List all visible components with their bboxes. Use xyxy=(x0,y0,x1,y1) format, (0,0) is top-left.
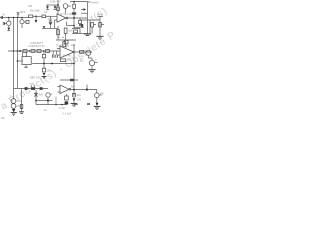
wire row y63.5 xyxy=(32,63,74,65)
wire vertical x58 top xyxy=(57,0,59,14)
node K junction xyxy=(29,50,30,51)
wire x80 drop xyxy=(79,18,81,20)
transistor Q5 xyxy=(89,60,94,65)
svg-text:393: 393 xyxy=(71,84,76,88)
wire X1 lead2 xyxy=(26,52,28,56)
marks row y37 xyxy=(58,36,64,38)
ground G4 xyxy=(42,76,47,77)
vertical x13.5 bottom xyxy=(13,89,15,99)
tick y104.5 right xyxy=(74,104,78,106)
diode D14 xyxy=(46,6,49,9)
wire U3 output xyxy=(71,89,87,91)
dash comp 2 xyxy=(31,87,35,90)
svg-text:0.4Ω: 0.4Ω xyxy=(59,106,65,110)
wire X1 tick xyxy=(18,60,24,62)
diode D11 xyxy=(73,98,76,101)
resistor R22 xyxy=(26,21,29,24)
resistor R2 xyxy=(29,15,33,18)
bus y20 xyxy=(80,19,100,21)
transistor Q4 xyxy=(86,50,91,55)
diode D15 lead xyxy=(54,5,56,6)
vertical x90 xyxy=(89,20,91,34)
diode D2 xyxy=(7,28,10,31)
node W junction xyxy=(86,88,88,90)
capacitor C7 lead xyxy=(56,51,58,55)
tick x100 top xyxy=(97,15,103,17)
diode D2 bar xyxy=(7,30,10,32)
wire y80 xyxy=(60,79,78,81)
node V junction xyxy=(73,89,75,91)
svg-text:BD: BD xyxy=(100,92,104,96)
bottom bus y104.5 xyxy=(36,104,67,106)
resistor R9 xyxy=(57,30,60,35)
node U junction xyxy=(61,104,63,106)
transistor Q3 xyxy=(20,20,24,24)
wire x66.4 xyxy=(65,94,67,96)
diode D15 bar xyxy=(54,8,57,10)
bus y40 xyxy=(56,39,76,41)
node F junction xyxy=(35,15,37,17)
wire R23 leads xyxy=(43,51,45,64)
zener D10 xyxy=(34,93,38,96)
capacitor C7 xyxy=(56,55,58,58)
wire Q1 emitter xyxy=(65,8,67,13)
diode D3 xyxy=(35,20,38,23)
wire Rtop leads xyxy=(73,2,75,14)
transistor Q2 lead xyxy=(8,18,10,22)
ground G3 xyxy=(88,70,95,73)
wire row y51 xyxy=(8,50,60,52)
resistor R20 xyxy=(70,79,74,81)
resistor R21 xyxy=(65,96,69,100)
resistor R18 xyxy=(60,59,65,62)
wire x87 up xyxy=(86,85,88,90)
vertical rail x74 top xyxy=(73,13,75,28)
tick pair above xyxy=(31,85,34,87)
svg-text:REF 2V5: REF 2V5 xyxy=(30,76,41,80)
resistor R23 xyxy=(42,54,45,58)
diode D3 lead xyxy=(35,16,37,20)
node A junction xyxy=(57,4,59,6)
wire bus y16.3 xyxy=(33,15,42,17)
ground G2 xyxy=(96,36,103,39)
node I junction xyxy=(17,50,19,52)
watermark line 1 xyxy=(0,30,118,113)
svg-text:22u: 22u xyxy=(77,93,82,97)
node O junction xyxy=(43,63,45,65)
wire y100.5 xyxy=(36,100,48,102)
ground G5 xyxy=(11,113,17,116)
wire U1 output xyxy=(68,17,87,19)
node C junction xyxy=(13,17,15,19)
wire corner to Q9 xyxy=(87,90,97,93)
diode D15 xyxy=(54,6,57,9)
capacitor C8 xyxy=(72,93,75,97)
svg-text:Vo 8: Vo 8 xyxy=(97,12,103,16)
ground G6 xyxy=(19,112,24,114)
wire R12 down xyxy=(65,44,67,48)
vertical x21.5 bottom xyxy=(21,89,23,112)
wire Q8 down xyxy=(47,97,49,104)
svg-text:V DETECT 2V: V DETECT 2V xyxy=(28,44,45,48)
resistor Rtop xyxy=(73,4,76,8)
svg-text:4u7: 4u7 xyxy=(48,17,53,21)
top rail y1.5 xyxy=(70,1,88,3)
wire feedback horizontal xyxy=(66,24,74,26)
node M junction xyxy=(17,60,19,62)
dark blob U3 bottom xyxy=(65,101,69,104)
wire y33.6 xyxy=(72,33,88,35)
node J junction xyxy=(13,50,15,52)
wire stub x50 xyxy=(50,16,52,20)
resistor R16 xyxy=(46,50,50,53)
vertical x58 mid xyxy=(57,26,59,40)
svg-text:100n 4n7: 100n 4n7 xyxy=(50,0,61,4)
capacitor C4 xyxy=(3,22,4,25)
wire U1 feedback down xyxy=(65,22,67,26)
wire U3 in ticks xyxy=(58,87,61,93)
diode D9 xyxy=(12,109,15,112)
svg-text:BZX: BZX xyxy=(20,10,25,14)
diode D6 xyxy=(79,24,82,27)
wire R7 tick xyxy=(93,24,96,26)
dash right xyxy=(87,103,90,105)
svg-text:5V6: 5V6 xyxy=(38,92,43,96)
main bus wire y17.5 xyxy=(0,17,29,19)
wire Q9 down xyxy=(96,98,98,103)
vertical rail x87.5 xyxy=(87,2,89,34)
supply tick xyxy=(88,1,91,3)
transistor Q7 xyxy=(11,104,16,109)
transistor Q1 xyxy=(63,4,68,9)
wire Q5 tick xyxy=(95,61,98,63)
node T junction xyxy=(55,104,57,106)
svg-text:C ≥ 1uF: C ≥ 1uF xyxy=(62,112,72,116)
wire D4 to bus xyxy=(50,26,52,29)
diode D4 xyxy=(49,23,52,26)
wire R7 lower lead xyxy=(91,27,93,34)
ground G9 xyxy=(24,66,28,68)
resistor R12 xyxy=(64,40,68,43)
capacitor C6 lead xyxy=(52,51,54,55)
resistor R13 xyxy=(23,50,27,53)
wire U2 in ticks xyxy=(57,49,60,56)
resistor R8 xyxy=(99,22,102,27)
resistor R15 xyxy=(37,50,41,53)
wire R8 tick xyxy=(101,24,104,26)
ground G8 xyxy=(94,107,101,110)
resistor R10 xyxy=(64,28,67,33)
wire S tick xyxy=(48,100,53,102)
op-amp U2 xyxy=(60,46,74,58)
battery blob xyxy=(81,24,83,27)
svg-text:C9: C9 xyxy=(44,10,48,14)
transistor Q3 lead xyxy=(21,18,23,20)
node R junction xyxy=(35,100,37,102)
wire bus y28.4 xyxy=(42,27,58,29)
node L junction xyxy=(43,50,44,51)
left rail 1 xyxy=(13,18,15,89)
resistor R1 xyxy=(57,7,60,10)
wire y27.3 xyxy=(74,26,84,28)
wire Q4 emitter elbow xyxy=(88,55,92,60)
wire to U1 input xyxy=(46,15,57,17)
capacitor C6 xyxy=(52,55,54,58)
svg-text:1k 2k2 10: 1k 2k2 10 xyxy=(60,12,72,16)
resistor R6 xyxy=(74,30,78,33)
resistor R11 xyxy=(63,42,66,47)
vertical rail x74 long xyxy=(73,44,75,104)
node E junction xyxy=(21,17,23,19)
svg-text:5/9: 5/9 xyxy=(1,116,5,120)
svg-text:10k: 10k xyxy=(47,69,52,73)
resistor R7 xyxy=(91,22,94,27)
zener D1 xyxy=(17,13,20,16)
node H junction xyxy=(73,25,75,27)
dash comp 1 xyxy=(25,87,28,90)
resistor R3 xyxy=(42,15,46,18)
transistor Q9 xyxy=(95,93,100,98)
diode D5 xyxy=(43,26,46,29)
left rail 2 xyxy=(17,18,19,89)
diode D14 bar xyxy=(46,8,49,10)
transistor Q8 xyxy=(46,93,50,97)
svg-text:12k: 12k xyxy=(68,28,73,32)
wire R10 down xyxy=(65,33,67,40)
svg-text:mV: mV xyxy=(30,81,34,85)
bus y88.5 xyxy=(14,88,49,90)
ground G7 xyxy=(71,104,78,107)
resistor R24 xyxy=(20,105,23,109)
wire Q3 emitter xyxy=(21,24,23,28)
resistor R5 xyxy=(79,20,82,23)
node P junction xyxy=(51,63,53,65)
wire Q8 tick xyxy=(50,93,52,95)
svg-text:R12 6k8: R12 6k8 xyxy=(30,8,40,12)
dash comp 3 xyxy=(40,87,43,90)
wire D7 lead xyxy=(81,9,83,11)
op-amp U1 xyxy=(57,14,66,22)
diode D12 xyxy=(96,103,99,106)
resistor R19 xyxy=(42,68,45,72)
diode D8 xyxy=(43,73,46,76)
svg-text:1k5: 1k5 xyxy=(71,43,76,47)
transistor Q2 base tick xyxy=(4,23,7,25)
zener D1 lead xyxy=(17,15,19,17)
wire y13 stub xyxy=(81,12,88,14)
transistor Q2 xyxy=(7,21,11,25)
diode D7 xyxy=(83,8,86,11)
resistor R17 xyxy=(80,50,84,53)
node G junction xyxy=(73,17,75,19)
node B junction xyxy=(8,17,10,19)
svg-text:18k: 18k xyxy=(28,4,33,8)
ground bar G1b xyxy=(86,34,89,36)
wire U1 lower input xyxy=(55,20,58,28)
ground bar G1 xyxy=(84,33,91,35)
wire Q5 emitter xyxy=(91,66,93,70)
resistor R14 xyxy=(31,50,35,53)
resistor R4 xyxy=(72,12,76,14)
wire X1 stub below xyxy=(25,65,27,67)
op-amp U3 bubble xyxy=(69,88,71,90)
capacitor C3 xyxy=(1,16,2,19)
watermark line 2 xyxy=(89,5,110,24)
capacitor C5 xyxy=(49,21,52,22)
zener branch x36 xyxy=(35,90,37,105)
diode D14 lead xyxy=(47,5,49,6)
diode D13 xyxy=(20,50,23,53)
wire X1 lead1 xyxy=(22,52,24,56)
transistor Q6 xyxy=(11,99,16,104)
wire Q9 tick xyxy=(99,94,102,96)
svg-text:4x7: 4x7 xyxy=(67,57,72,61)
vertical x100 xyxy=(99,16,101,36)
top rail wire xyxy=(46,4,58,6)
svg-text:BC: BC xyxy=(80,58,84,62)
wire x44 drop xyxy=(43,64,45,69)
op-amp U3 xyxy=(60,85,69,94)
wire Q3 collector tick xyxy=(24,21,26,23)
diode D2 lead xyxy=(8,26,10,28)
node top74 junction xyxy=(73,1,75,3)
wire Q6 Q7 ticks xyxy=(16,101,22,106)
wire Q1 collector xyxy=(68,5,71,7)
wire U2 output xyxy=(74,51,92,53)
node N junction xyxy=(73,51,75,53)
vertical x56 xyxy=(55,97,57,105)
svg-text:Vs=6V: Vs=6V xyxy=(91,0,99,4)
node Q junction xyxy=(73,63,75,65)
node S junction xyxy=(47,100,49,102)
wire y28.4 corner xyxy=(72,28,80,33)
op-amp U1 output bubble xyxy=(66,17,68,19)
svg-text:100: 100 xyxy=(77,97,82,101)
IC box X1 xyxy=(22,57,31,65)
node D junction xyxy=(17,17,19,19)
